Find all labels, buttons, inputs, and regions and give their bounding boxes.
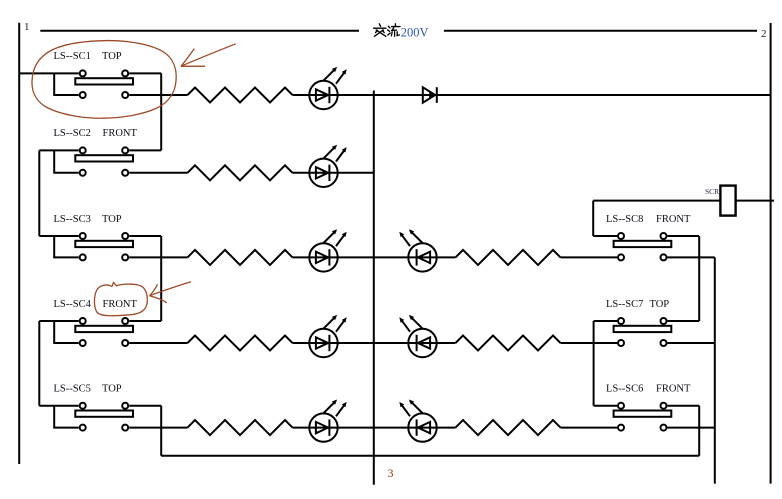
resistor R4 — [188, 336, 293, 351]
LED D8 body (mirrored) — [408, 413, 436, 441]
LED D7 body (mirrored) — [408, 329, 436, 357]
wire: R5 to LED D5 to LED D8 — [293, 427, 409, 429]
wire: center bus (net 3) — [373, 91, 375, 485]
wire: across LED D7 — [408, 342, 436, 344]
LED D2 symbol — [316, 145, 347, 181]
annotation: arrow pointing at FRONT of LS--SC4 — [150, 282, 191, 303]
LED D5 body — [309, 413, 337, 441]
resistor R7 — [456, 336, 561, 351]
wire: LED D8 to resistor R8 — [437, 427, 456, 429]
svg-text:TOP: TOP — [102, 51, 122, 62]
terminals of LS--SC7 — [618, 318, 624, 324]
LED D3 body — [309, 243, 337, 271]
wire: R3 to LED D3 to LED D6 — [293, 256, 409, 258]
wire: R8 to right switch bottom-left terminal — [561, 427, 618, 429]
wire: LED D6 to resistor R6 — [437, 256, 456, 258]
wire: SC5 output through R5 row — [129, 427, 187, 429]
LED D8 symbol (mirrored) — [399, 400, 430, 436]
wire: R2 to LED D2 to center bus — [293, 172, 374, 174]
wire: SC6 top-right down to bottom link bus — [698, 406, 700, 456]
wire: SC5 top-right down to bottom link bus — [160, 406, 162, 456]
terminals of LS--SC6 — [618, 403, 624, 409]
wire: feed into LS--SC1 top-left terminal — [19, 72, 78, 74]
wire: feed into LS--SC5 top-left terminal — [39, 405, 78, 407]
svg-text:2: 2 — [761, 28, 767, 40]
contact bar of LS--SC2 — [75, 155, 133, 161]
terminals of LS--SC5 — [80, 403, 86, 409]
svg-text:1: 1 — [24, 21, 30, 33]
LED D1 symbol — [316, 67, 347, 103]
label 交流 (AC) drawn glyphs — [374, 24, 400, 37]
terminals of LS--SC2 — [80, 147, 86, 153]
wire: SC1 output through R1 row — [129, 94, 187, 96]
wire: R1 to LED D1 to diode V1 to right bus — [293, 94, 771, 96]
contact bar of LS--SC4 — [75, 326, 133, 332]
wire: LS--SC7 top-left terminal lead — [594, 320, 617, 322]
wire: SC4 output through R4 row — [129, 342, 187, 344]
wire: right return line from SC8/SC7/SC6 bottom-right — [714, 257, 716, 483]
wire: LS--SC4 top-right terminal to chain — [129, 320, 161, 322]
contact bar of LS--SC5 — [75, 411, 133, 417]
svg-text:LS--SC6: LS--SC6 — [606, 384, 643, 395]
svg-text:LS--SC5: LS--SC5 — [54, 384, 91, 395]
svg-text:LS--SC1: LS--SC1 — [54, 51, 91, 62]
limit switch LS--SC3 — [39, 214, 161, 261]
LED D4 symbol — [316, 315, 347, 351]
svg-text:LS--SC4: LS--SC4 — [54, 299, 92, 310]
wire: SC2 top-left down to SC3 top-left — [38, 150, 40, 236]
svg-text:FRONT: FRONT — [103, 128, 138, 139]
LED D7 symbol (mirrored) — [399, 315, 430, 351]
svg-text:FRONT: FRONT — [103, 299, 138, 310]
annotation: hand-drawn circle around LS--SC1 — [32, 41, 176, 119]
wire: SCR branch from SC8 riser — [593, 200, 720, 202]
diode V1 — [423, 87, 437, 103]
wire: SCR to right bus — [736, 200, 774, 202]
wire: feed into LS--SC3 top-left terminal — [39, 235, 78, 237]
wire: jog to LS--SC3 bottom-left terminal — [54, 236, 78, 257]
wire: R7 to right switch bottom-left terminal — [561, 342, 618, 344]
limit switch LS--SC8 — [593, 214, 715, 261]
wire: LS--SC8 bottom-right terminal to return line — [668, 256, 715, 258]
wire: jog to LS--SC1 bottom-left terminal — [54, 73, 78, 95]
LED D2 body — [309, 159, 337, 187]
wire: LS--SC8 top-left terminal lead — [593, 235, 617, 237]
LED D1 body — [309, 81, 337, 109]
LED D3 symbol — [316, 229, 347, 265]
svg-text:LS--SC8: LS--SC8 — [606, 214, 643, 225]
wire: jog to LS--SC2 bottom-left terminal — [54, 150, 78, 172]
wire: top AC supply line, right segment — [444, 30, 757, 32]
svg-text:FRONT: FRONT — [656, 384, 691, 395]
resistor R1 — [188, 88, 293, 103]
resistor R8 — [456, 420, 561, 435]
limit switch LS--SC2 — [39, 128, 161, 176]
contact bar of LS--SC7 — [614, 326, 672, 332]
LED D5 symbol — [316, 400, 347, 436]
wire: SC2 output through R2 row — [129, 172, 187, 174]
terminals of LS--SC8 — [618, 233, 624, 239]
wire: LS--SC7 top-right terminal to chain — [668, 320, 700, 322]
svg-text:TOP: TOP — [102, 214, 122, 225]
wire: LS--SC6 bottom-right terminal to return line — [668, 427, 715, 429]
terminals of LS--SC1 — [80, 70, 86, 76]
wire: bottom link bus — [161, 455, 699, 457]
resistor R2 — [188, 165, 293, 180]
wire: SC1 top-right down to SC2 top-right — [160, 73, 162, 150]
resistor R6 — [456, 250, 561, 265]
wire: LS--SC8 top-right terminal to chain — [668, 235, 700, 237]
svg-text:LS--SC2: LS--SC2 — [54, 128, 91, 139]
wire: LS--SC3 top-right terminal to chain — [129, 235, 161, 237]
svg-text:TOP: TOP — [102, 384, 122, 395]
svg-text:200V: 200V — [401, 25, 429, 39]
limit switch LS--SC4 — [39, 299, 161, 346]
terminals of LS--SC4 — [80, 318, 86, 324]
wire: LED D7 to resistor R7 — [437, 342, 456, 344]
wire: LS--SC2 top-right terminal to chain — [129, 149, 161, 151]
limit switch LS--SC6 — [594, 384, 715, 431]
wire: across LED D6 — [408, 256, 436, 258]
limit switch LS--SC5 — [39, 384, 161, 431]
resistor R3 — [188, 250, 293, 265]
SCR component — [720, 186, 735, 216]
wire: LS--SC6 top-left terminal lead — [594, 405, 617, 407]
wire: LS--SC1 top-right terminal to chain — [129, 72, 161, 74]
resistor R5 — [188, 420, 293, 435]
wire: SC3 top-right down to SC4 top-right — [160, 236, 162, 321]
contact bar of LS--SC8 — [614, 241, 672, 247]
wire: R4 to LED D4 to LED D7 — [293, 342, 409, 344]
wire: right bus (net 2) — [770, 23, 772, 484]
LED D4 body — [309, 329, 337, 357]
wire: feed into LS--SC2 top-left terminal — [39, 149, 78, 151]
contact bar of LS--SC6 — [614, 411, 672, 417]
LED D6 symbol (mirrored) — [399, 229, 430, 265]
wire: LS--SC7 bottom-right terminal to return line — [668, 342, 715, 344]
wire: LS--SC5 top-right terminal to chain — [129, 405, 161, 407]
svg-text:LS--SC7: LS--SC7 — [606, 299, 643, 310]
limit switch LS--SC7 — [594, 299, 715, 346]
wire: left supply line (net 1) — [18, 23, 20, 464]
svg-text:FRONT: FRONT — [656, 214, 691, 225]
contact bar of LS--SC3 — [75, 241, 133, 247]
wire: riser from SCR branch down to SC8 top-left — [592, 201, 594, 236]
wire: feed into LS--SC4 top-left terminal — [39, 320, 78, 322]
wire: SC8 top-right down to SC7 top-right — [698, 236, 700, 321]
svg-text:TOP: TOP — [650, 299, 670, 310]
wire: jog to LS--SC5 bottom-left terminal — [54, 406, 78, 428]
limit switch LS--SC1 — [19, 51, 161, 98]
svg-text:3: 3 — [388, 466, 394, 480]
wire: jog to LS--SC4 bottom-left terminal — [54, 321, 78, 343]
wire: SC3 output through R3 row — [129, 256, 187, 258]
LED D6 body (mirrored) — [408, 243, 436, 271]
contact bar of LS--SC1 — [75, 78, 133, 84]
svg-text:LS--SC3: LS--SC3 — [54, 214, 91, 225]
wire: top AC supply line, left segment — [40, 30, 359, 32]
annotation: hand-drawn circle around FRONT of LS--SC4 — [94, 283, 147, 316]
wire: SC4 top-left down to SC5 top-left — [38, 321, 40, 406]
terminals of LS--SC3 — [80, 233, 86, 239]
svg-text:SCR: SCR — [705, 187, 719, 196]
annotation: arrow pointing at LS--SC1 — [181, 44, 236, 67]
wire: LS--SC6 top-right terminal to chain — [668, 405, 700, 407]
wire: SC7 top-left down to SC6 top-left — [593, 321, 595, 406]
wire: R6 to right switch bottom-left terminal — [561, 256, 618, 258]
wire: across LED D8 — [408, 427, 436, 429]
